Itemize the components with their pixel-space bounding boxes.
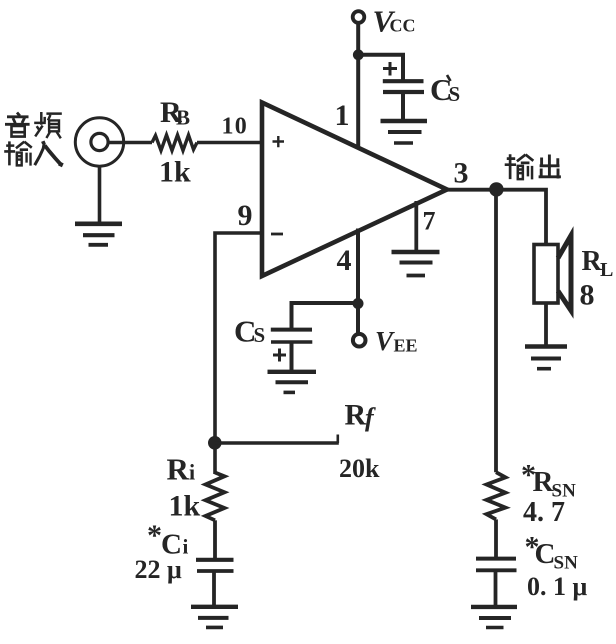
svg-text:S: S: [449, 82, 461, 106]
svg-text:22 μ: 22 μ: [135, 555, 183, 584]
svg-text:R: R: [345, 399, 367, 432]
svg-text:9: 9: [238, 199, 253, 232]
svg-text:4: 4: [337, 244, 352, 277]
svg-text:L: L: [600, 259, 613, 281]
svg-text:3: 3: [454, 157, 469, 190]
svg-text:i: i: [189, 460, 195, 485]
svg-text:R: R: [167, 452, 190, 487]
svg-text:B: B: [176, 106, 190, 130]
svg-text:C: C: [535, 538, 556, 570]
svg-text:i: i: [183, 535, 189, 559]
svg-text:S: S: [254, 323, 266, 347]
svg-text:8: 8: [580, 279, 595, 312]
svg-text:SN: SN: [554, 553, 579, 574]
svg-text:0. 1 μ: 0. 1 μ: [527, 572, 588, 601]
svg-text:7: 7: [423, 207, 436, 236]
svg-text:10: 10: [222, 114, 248, 140]
svg-text:*: *: [147, 519, 162, 552]
svg-text:1k: 1k: [159, 156, 191, 189]
svg-text:20k: 20k: [339, 454, 380, 483]
svg-text:1k: 1k: [169, 490, 201, 523]
svg-text:1: 1: [335, 99, 350, 132]
svg-text:EE: EE: [394, 336, 418, 356]
svg-text:CC: CC: [390, 16, 416, 36]
svg-text:4. 7: 4. 7: [523, 497, 565, 528]
svg-text:V: V: [375, 326, 395, 356]
